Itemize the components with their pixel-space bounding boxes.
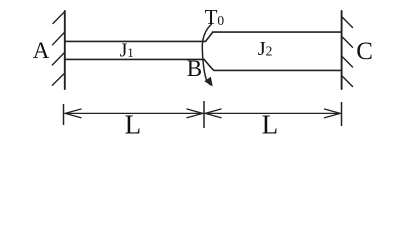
dim arrowhead left end bbox=[65, 109, 81, 118]
flare bottom at B bbox=[204, 59, 214, 70]
wall C hatch 3 bbox=[342, 56, 353, 67]
svg-text:J1: J1 bbox=[120, 41, 134, 62]
dimension extension tick right bbox=[341, 102, 343, 126]
shaft J2 bottom line bbox=[214, 69, 341, 71]
wall A hatch 2 bbox=[53, 32, 65, 45]
wall A hatch 3 bbox=[52, 52, 65, 65]
wall C vertical line bbox=[341, 11, 343, 89]
shaft J1 top line bbox=[65, 40, 206, 42]
torque arrow arc at B bbox=[202, 25, 211, 85]
flare top at B bbox=[206, 32, 213, 41]
svg-text:L: L bbox=[125, 110, 142, 140]
svg-text:T0: T0 bbox=[205, 5, 225, 29]
dimension line left span bbox=[65, 112, 203, 114]
dimension extension tick center bbox=[203, 101, 205, 128]
shaft J1 bottom line bbox=[65, 58, 204, 60]
svg-text:B: B bbox=[187, 56, 202, 81]
torque arrow head bbox=[205, 78, 212, 86]
dimension line right span bbox=[205, 112, 341, 114]
svg-text:C: C bbox=[356, 38, 373, 65]
wall C hatch 1 bbox=[342, 17, 353, 28]
dim arrowhead center pointing left bbox=[205, 109, 221, 118]
wall C hatch 4 bbox=[342, 76, 353, 87]
dim arrowhead right end bbox=[324, 109, 340, 118]
wall A hatch 1 bbox=[53, 12, 65, 24]
dimension extension tick left bbox=[63, 104, 65, 125]
dim arrowhead center pointing right bbox=[187, 109, 203, 118]
wall A vertical line bbox=[64, 11, 66, 89]
svg-text:J2: J2 bbox=[258, 38, 273, 60]
svg-text:A: A bbox=[33, 38, 50, 63]
shaft J2 top line bbox=[213, 31, 342, 33]
svg-text:L: L bbox=[262, 110, 279, 140]
wall C hatch 2 bbox=[342, 36, 353, 47]
wall A hatch 4 bbox=[52, 73, 65, 85]
